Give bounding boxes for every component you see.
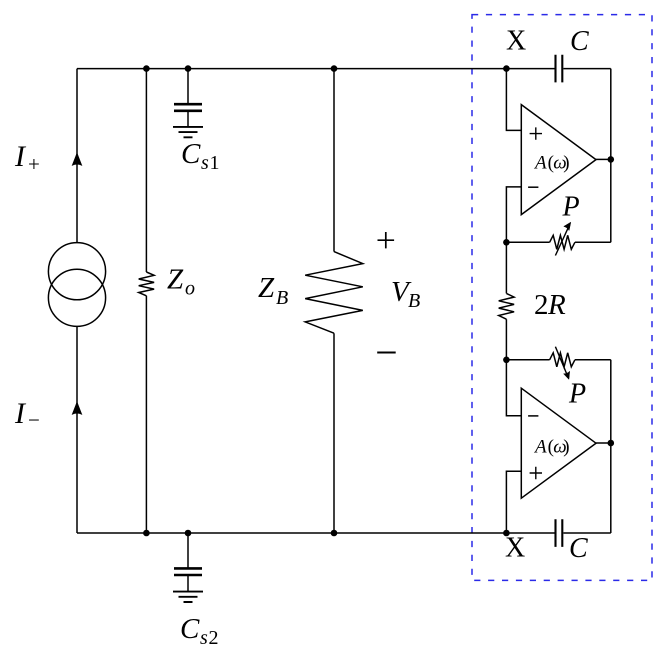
svg-text:2: 2 (209, 627, 219, 649)
ground (Cs2) (173, 592, 203, 602)
wire Cs2 stem (187, 533, 189, 568)
wire Cs1 stem (187, 69, 189, 105)
node X bottom (503, 530, 510, 537)
svg-text:−: − (28, 408, 40, 432)
node P1 left (503, 239, 510, 246)
svg-text:C: C (569, 533, 588, 564)
wire Zo column top (145, 69, 147, 272)
wire pot P1 right (575, 241, 611, 243)
op-amp U2 (521, 388, 596, 498)
resistor ZB (305, 252, 363, 334)
capacitor C bottom (556, 519, 563, 547)
resistor Zo (139, 272, 154, 296)
potentiometer P2 (550, 353, 575, 367)
svg-text:P: P (568, 379, 586, 410)
wire pot P1 left (506, 241, 549, 243)
node top ZB (331, 65, 338, 72)
wire right rail lower (610, 360, 612, 533)
svg-text:B: B (276, 287, 288, 309)
svg-text:R: R (547, 289, 566, 321)
node U2 output (608, 440, 615, 447)
node bottom Cs2 (185, 530, 192, 537)
wire U1 +input (506, 69, 521, 131)
wire 2R column (505, 242, 507, 293)
capacitor Cs2 (174, 568, 202, 575)
svg-text:A: A (533, 436, 547, 457)
svg-text:C: C (570, 26, 589, 57)
wire left vertical upper (76, 69, 78, 243)
svg-text:C: C (180, 613, 200, 645)
arrow P1 (555, 227, 568, 255)
node bottom Zo (143, 530, 150, 537)
svg-text:C: C (181, 138, 201, 170)
node bottom ZB (331, 530, 338, 537)
svg-text:P: P (562, 191, 580, 222)
svg-text:s: s (201, 152, 209, 174)
label + (VB) (378, 232, 395, 248)
resistor 2R (499, 293, 514, 319)
wire U2 output stub (596, 442, 611, 444)
wire ZB column top (333, 69, 335, 252)
dashed feedback box (472, 15, 652, 581)
wire U2 +input (506, 471, 521, 533)
node top Cs1 (185, 65, 192, 72)
svg-text:Z: Z (258, 272, 275, 304)
arrow I+ (72, 153, 82, 165)
wire bottom horizontal (77, 532, 611, 534)
ground (Cs1) (173, 127, 203, 137)
node U1 output (608, 156, 615, 163)
svg-text:o: o (185, 278, 195, 300)
wire pot P2 right (575, 359, 611, 361)
svg-text:1: 1 (210, 152, 220, 174)
wire left vertical lower (76, 326, 78, 533)
svg-text:s: s (200, 627, 208, 649)
wire U1 -input (506, 187, 521, 242)
wire pot P2 left (506, 359, 549, 361)
node top Zo (143, 65, 150, 72)
arrow P2 (555, 347, 566, 374)
wire Zo column bottom (145, 296, 147, 533)
svg-text:B: B (408, 290, 420, 312)
label - (VB) (377, 352, 396, 354)
wire top horizontal (77, 68, 611, 70)
op-amp U1 (521, 105, 596, 215)
arrow I- (72, 402, 82, 414)
svg-text:X: X (506, 26, 526, 57)
svg-text:Z: Z (167, 264, 184, 296)
wire right rail upper (610, 69, 612, 243)
svg-text:A: A (533, 153, 547, 174)
current source I1 (two circles) (48, 243, 105, 300)
potentiometer P1 (550, 235, 575, 249)
capacitor Cs1 (174, 104, 202, 111)
wire U2 -input (506, 360, 521, 416)
node P2 left (503, 357, 510, 364)
svg-text:): ) (563, 436, 569, 457)
capacitor C top (556, 55, 563, 83)
wire U1 output stub (596, 158, 611, 160)
svg-text:+: + (28, 152, 40, 176)
wire ZB column bottom (333, 333, 335, 533)
svg-text:2: 2 (534, 289, 549, 321)
svg-text:): ) (563, 153, 569, 174)
svg-text:X: X (505, 533, 525, 564)
node X top (503, 65, 510, 72)
